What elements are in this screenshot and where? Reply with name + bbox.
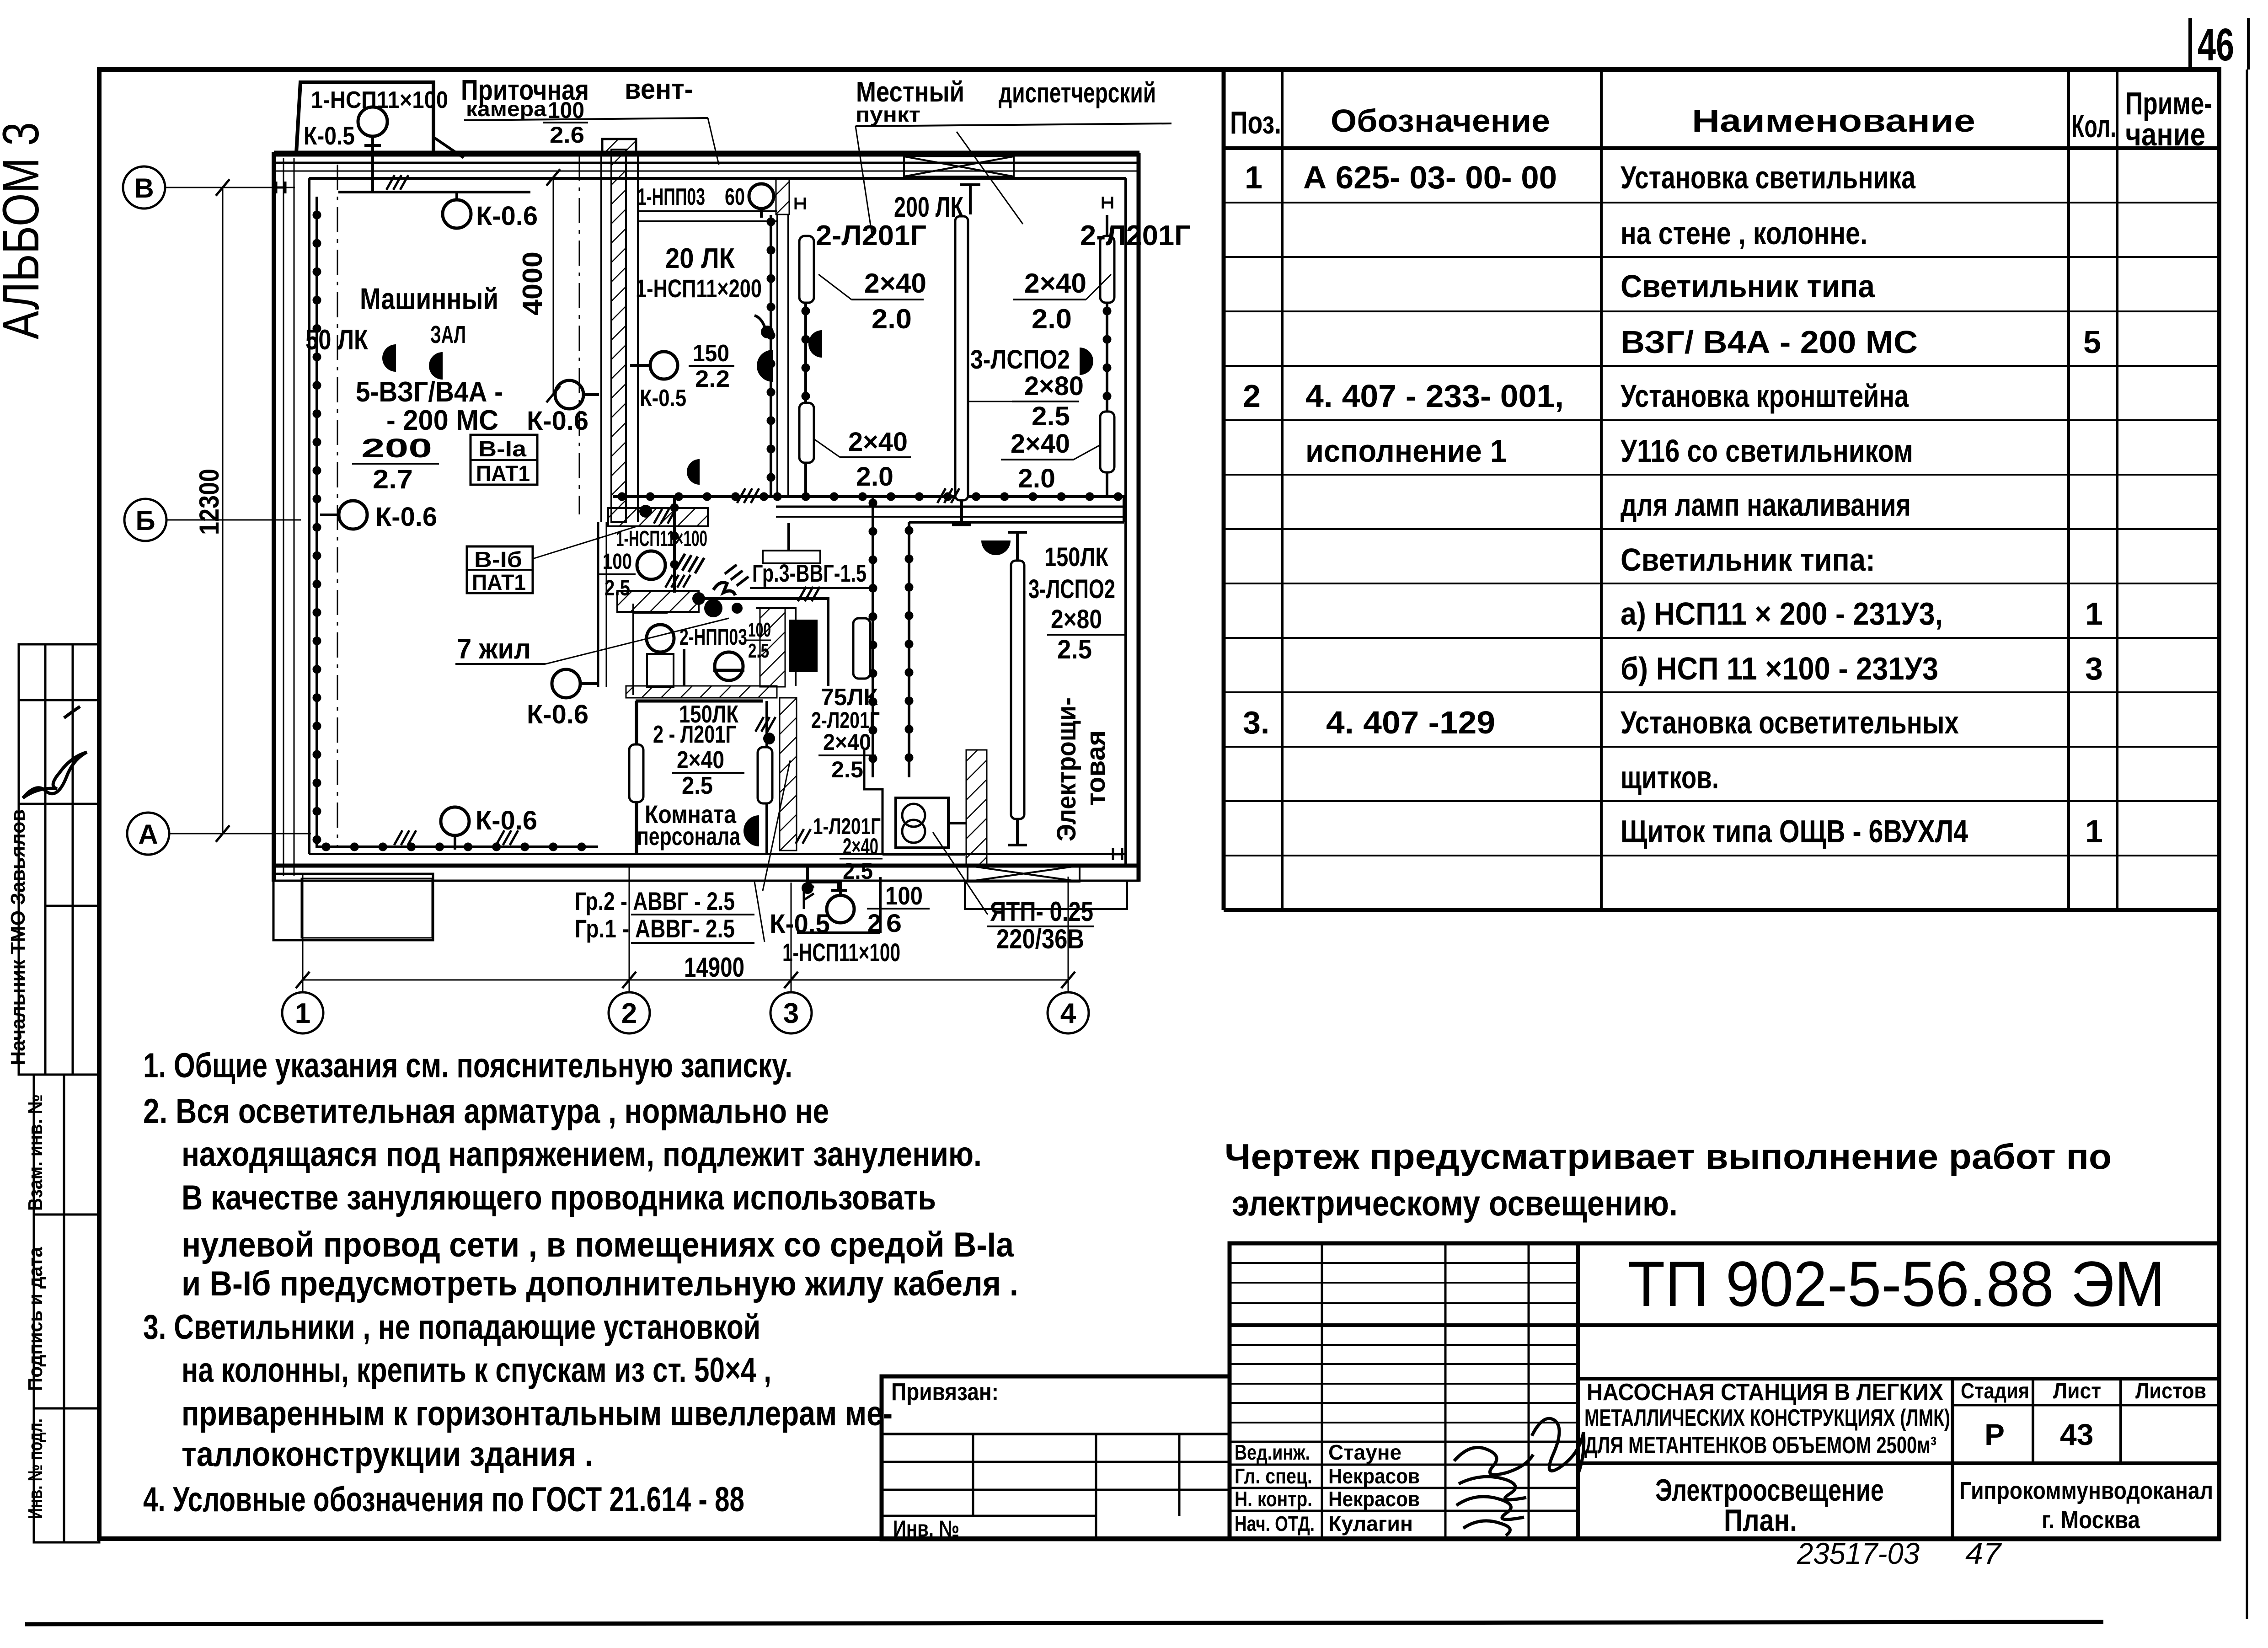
svg-text:Стауне: Стауне [1328, 1440, 1401, 1464]
hatched strip electro room left [966, 750, 987, 864]
wire left tubes column [804, 236, 807, 497]
svg-text:Установка осветительных: Установка осветительных [1621, 705, 1959, 740]
wall left outer [272, 152, 276, 882]
svg-text:2. Вся осветительная: 2. Вся осветительная арматура , нормальн… [143, 1092, 829, 1131]
axis leader lines [165, 187, 311, 834]
svg-text:К-0.6: К-0.6 [476, 201, 538, 231]
wire electro transformer loop [883, 823, 966, 854]
svg-text:150: 150 [693, 340, 729, 367]
wire bottom lamp drop [797, 866, 880, 933]
vent corridor room bottom wall [638, 210, 777, 212]
svg-text:2.0: 2.0 [872, 304, 912, 334]
wall right [1124, 178, 1127, 867]
svg-text:75ЛК: 75ЛК [821, 684, 878, 711]
wire center horizontal [613, 495, 771, 498]
T ceiling symbols [952, 185, 1027, 845]
wire komnata tube drop [765, 701, 768, 854]
svg-text:2×80: 2×80 [1051, 605, 1102, 634]
svg-text:Листов: Листов [2135, 1379, 2206, 1403]
wall bottom [309, 853, 1126, 855]
lamp with line 2-NPP03 [715, 652, 743, 680]
svg-text:электрическому освещению.: электрическому освещению. [1232, 1183, 1678, 1223]
svg-text:2-Л201Г: 2-Л201Г [816, 220, 926, 251]
wall top outer [274, 151, 1139, 157]
svg-text:К-0.5: К-0.5 [304, 121, 355, 150]
junction dot overlays [317, 215, 1124, 847]
svg-text:2 - Л201Г: 2 - Л201Г [653, 721, 736, 748]
svg-text:Нач. ОТД.: Нач. ОТД. [1235, 1512, 1315, 1536]
fluorescent tube center small [853, 618, 870, 679]
page number 46 box [2190, 18, 2248, 70]
svg-text:У116 со светильником: У116 со светильником [1621, 433, 1913, 469]
lamp K-0.6 hall lower [552, 669, 580, 698]
svg-text:4. 407 -129: 4. 407 -129 [1326, 705, 1495, 740]
svg-text:Стадия: Стадия [1961, 1379, 2029, 1403]
svg-text:1. Общие указания с: 1. Общие указания см. пояснительную запи… [143, 1046, 792, 1085]
svg-text:100: 100 [885, 881, 923, 910]
axis circle 1 [282, 992, 323, 1033]
svg-text:220/36В: 220/36В [996, 924, 1084, 954]
svg-text:ЯТП- 0.25: ЯТП- 0.25 [990, 896, 1093, 927]
wall mount H symbols [276, 182, 1122, 860]
svg-text:Привязан:: Привязан: [891, 1378, 999, 1406]
NOTES [143, 1046, 1018, 1519]
SIDEBAR [19, 644, 99, 1542]
svg-text:Некрасов: Некрасов [1328, 1464, 1420, 1488]
svg-text:таллоконструкции здания .: таллоконструкции здания . [182, 1435, 593, 1474]
svg-text:персонала: персонала [637, 822, 741, 851]
svg-text:1: 1 [2085, 813, 2103, 849]
svg-text:Взам. инв. №: Взам. инв. № [24, 1094, 47, 1211]
svg-text:1-НСП11×100: 1-НСП11×100 [311, 87, 448, 113]
svg-text:Гл. спец.: Гл. спец. [1235, 1464, 1312, 1488]
svg-text:ВЗГ/ В4А - 200 МС: ВЗГ/ В4А - 200 МС [1621, 324, 1918, 360]
svg-text:Инв. №: Инв. № [893, 1516, 959, 1541]
svg-text:План.: План. [1724, 1503, 1797, 1538]
hatched band below dispatcher wall [608, 508, 708, 526]
svg-text:МЕТАЛЛИЧЕСКИХ КОНСТРУКЦИЯХ (: МЕТАЛЛИЧЕСКИХ КОНСТРУКЦИЯХ (ЛМК) [1584, 1405, 1950, 1431]
dimension tick slashes [216, 179, 1075, 988]
wall between rooms [776, 214, 778, 497]
svg-text:Электроосвещение: Электроосвещение [1655, 1473, 1884, 1508]
axis circle В [123, 166, 165, 209]
fluorescent tube electro long [1011, 561, 1024, 819]
svg-text:Светильник типа: Светильник типа [1621, 268, 1875, 304]
svg-text:2.5: 2.5 [843, 858, 873, 884]
fluorescent tube middle long [955, 216, 968, 500]
svg-text:Машинный: Машинный [360, 282, 498, 316]
corridor wall lines beside column [600, 153, 602, 522]
svg-text:4: 4 [1060, 998, 1076, 1029]
project name [1584, 1379, 1950, 1459]
wire dispatcher bottom [771, 497, 1124, 522]
svg-text:В качестве зануляющего: В качестве зануляющего проводника исполь… [182, 1178, 936, 1217]
svg-text:2.7: 2.7 [373, 465, 413, 494]
svg-text:Вед.инж.: Вед.инж. [1235, 1440, 1310, 1464]
svg-text:2×40: 2×40 [843, 834, 878, 859]
wire center drop [673, 497, 676, 593]
svg-text:на стене , колонне.: на стене , колонне. [1621, 215, 1867, 251]
svg-text:Гр.3-ВВГ-1.5: Гр.3-ВВГ-1.5 [752, 560, 867, 587]
svg-text:пункт: пункт [856, 102, 920, 126]
svg-text:Гипрокоммунводоканал: Гипрокоммунводоканал [1959, 1477, 2213, 1504]
svg-text:2: 2 [867, 909, 881, 937]
hatched band komnata top [626, 686, 777, 698]
lamp K-0.6 hall mid [555, 380, 583, 409]
svg-text:для ламп накаливания: для ламп накаливания [1621, 487, 1911, 523]
sidebar lower stamp block [34, 1075, 99, 1542]
svg-text:1-НСП11×200: 1-НСП11×200 [636, 274, 762, 303]
SPECIFICATION TABLE [1224, 70, 2219, 910]
svg-text:23517-03: 23517-03 [1797, 1536, 1920, 1570]
hatched strip komnata right [780, 698, 797, 851]
svg-text:3.: 3. [1243, 705, 1269, 740]
lamp K-0.5 bottom center [827, 895, 854, 923]
svg-text:200 ЛК: 200 ЛК [894, 192, 963, 223]
wire hall left+bottom [317, 197, 598, 847]
svg-text:1: 1 [1245, 160, 1262, 195]
svg-text:ПАТ1: ПАТ1 [472, 571, 526, 595]
axis verticals to circles [303, 866, 1068, 992]
box В-Iб ПАТ1 [467, 546, 533, 593]
window cross bottom wall [968, 866, 1080, 882]
svg-text:- 200 МС: - 200 МС [386, 405, 498, 436]
svg-text:43: 43 [2060, 1418, 2093, 1451]
fluorescent tube komnata right [758, 747, 772, 803]
svg-text:Н. контр.: Н. контр. [1235, 1487, 1312, 1511]
table body texts [1243, 160, 2103, 849]
lamp 2-NPP03 room [647, 625, 674, 652]
signer labels [1235, 1440, 1420, 1536]
svg-text:Лист: Лист [2053, 1379, 2101, 1403]
svg-text:Наименование: Наименование [1692, 103, 1975, 139]
svg-text:Некрасов: Некрасов [1328, 1487, 1420, 1511]
wall top inner lines [274, 162, 1139, 164]
hatched wall piece right of corridor [776, 178, 789, 214]
svg-text:5: 5 [2083, 324, 2101, 360]
svg-text:3-ЛСПО2: 3-ЛСПО2 [1028, 574, 1115, 604]
annex rectangle bottom left [273, 874, 433, 940]
svg-text:2.2: 2.2 [695, 366, 730, 392]
svg-text:НАСОСНАЯ СТАНЦИЯ В ЛЕГКИ: НАСОСНАЯ СТАНЦИЯ В ЛЕГКИХ [1587, 1379, 1943, 1406]
svg-text:2.5: 2.5 [682, 772, 713, 799]
axis circle А [127, 813, 169, 855]
dash-dot axis lines [337, 155, 579, 848]
svg-text:50 ЛК: 50 ЛК [305, 324, 368, 356]
svg-text:на колонны, крепить к с: на колонны, крепить к спускам из ст. 50×… [182, 1351, 771, 1390]
svg-text:2×40: 2×40 [1024, 268, 1086, 299]
svg-text:б) НСП 11 ×100 - 231У3: б) НСП 11 ×100 - 231У3 [1621, 651, 1938, 686]
axis circle 3 [770, 992, 812, 1033]
wire corridor wall [770, 215, 772, 497]
fluorescent tube komnata left [629, 744, 643, 802]
hatched band center left [617, 591, 699, 612]
svg-text:В: В [134, 173, 154, 203]
small room 2-NPP03 walls [633, 604, 796, 695]
svg-text:исполнение 1: исполнение 1 [1305, 433, 1507, 469]
svg-text:А: А [138, 819, 158, 850]
table header texts [1230, 86, 2212, 152]
svg-text:В-Iб: В-Iб [474, 548, 522, 572]
svg-text:3: 3 [2085, 651, 2103, 686]
svg-text:200: 200 [361, 433, 432, 463]
svg-text:диспетчерский: диспетчерский [999, 77, 1156, 109]
svg-text:Гр.2 - АВВГ - 2.5: Гр.2 - АВВГ - 2.5 [575, 887, 735, 915]
svg-text:7 жил: 7 жил [457, 633, 531, 665]
svg-text:Обозначение: Обозначение [1331, 103, 1550, 139]
svg-text:Электрощи-: Электрощи- [1052, 697, 1081, 841]
black semicircle wall lamps [382, 344, 396, 372]
axis circle 2 [609, 992, 650, 1033]
lamp K-0.6 hall bottom [441, 807, 469, 835]
electro room inner wall [864, 750, 883, 854]
lamp K-0.5 protrusion [358, 107, 387, 136]
svg-text:100: 100 [603, 550, 632, 574]
lamp K-0.6 axis B [339, 501, 367, 529]
svg-text:2.5: 2.5 [748, 640, 769, 662]
wall left inner lines [283, 158, 284, 876]
svg-text:вент-: вент- [625, 74, 693, 105]
hatched column wall center top [611, 150, 626, 522]
svg-text:К-0.6: К-0.6 [527, 406, 588, 436]
sidebar upper stamp block [19, 644, 99, 1075]
scan page edge right [2246, 70, 2248, 1619]
washbasin symbols [647, 654, 674, 687]
fluorescent tube right room upper [1100, 236, 1114, 303]
svg-text:150ЛК: 150ЛК [1044, 542, 1108, 572]
svg-text:5-ВЗГ/В4А -: 5-ВЗГ/В4А - [356, 376, 503, 408]
svg-text:2-Л201Г: 2-Л201Г [1080, 220, 1191, 251]
svg-text:1-НПП03: 1-НПП03 [637, 184, 705, 210]
svg-text:2.0: 2.0 [856, 462, 893, 492]
svg-text:Начальник ТМО Завьялов: Начальник ТМО Завьялов [7, 809, 29, 1065]
svg-text:2×80: 2×80 [1024, 371, 1084, 401]
box В-Iа ПАТ1 [471, 435, 537, 485]
svg-text:2×40: 2×40 [1011, 429, 1070, 459]
svg-text:20 ЛК: 20 ЛК [665, 243, 735, 274]
svg-text:К-0.6: К-0.6 [476, 806, 537, 835]
vent room protrusion top left [296, 82, 433, 153]
svg-text:2×40: 2×40 [848, 427, 908, 457]
svg-text:2.0: 2.0 [1032, 304, 1072, 334]
svg-text:г. Москва: г. Москва [2042, 1506, 2140, 1534]
svg-text:К-0.5: К-0.5 [640, 385, 686, 412]
svg-text:2.5: 2.5 [1057, 635, 1092, 664]
svg-text:товая: товая [1081, 730, 1111, 806]
svg-text:Кол.: Кол. [2071, 108, 2116, 144]
svg-text:100: 100 [548, 97, 584, 123]
Чертеж note [1225, 1136, 2112, 1223]
svg-text:4000: 4000 [517, 251, 548, 316]
svg-text:6: 6 [886, 909, 902, 937]
scan page edge bottom [25, 1622, 2103, 1624]
wire right tubes column [1106, 215, 1108, 497]
svg-text:находящаяся под напряж: находящаяся под напряжением, подлежит за… [182, 1135, 982, 1174]
wall below column [597, 522, 599, 687]
label rectangle above Gr3 [763, 551, 820, 563]
svg-text:2×40: 2×40 [864, 268, 926, 299]
cluster scribbles [676, 554, 704, 573]
svg-text:приваренным к горизонтальн: приваренным к горизонтальным швеллерам м… [182, 1394, 893, 1433]
wire crossing slashes [386, 175, 959, 845]
svg-text:46: 46 [2198, 19, 2234, 70]
komnata personala walls [635, 701, 638, 854]
svg-text:Подпись и дата: Подпись и дата [24, 1247, 47, 1391]
svg-text:47: 47 [1965, 1536, 2002, 1570]
window cross top wall [904, 156, 1014, 177]
switch symbol bottom [804, 886, 814, 909]
svg-text:а) НСП11 × 200 - 231У3,: а) НСП11 × 200 - 231У3, [1621, 596, 1943, 631]
signatures scribble [1454, 1447, 1533, 1536]
svg-text:и В-Iб предусмотреть до: и В-Iб предусмотреть дополнительную жилу… [182, 1264, 1018, 1303]
wires with junction dots [317, 137, 1124, 933]
svg-text:ДЛЯ МЕТАНТЕНКОВ ОБЪЕМОМ 250: ДЛЯ МЕТАНТЕНКОВ ОБЪЕМОМ 2500м³ [1584, 1432, 1936, 1459]
svg-text:60: 60 [725, 184, 745, 210]
wire protrusion lamp drop [373, 137, 464, 192]
wire electro room [909, 522, 1124, 777]
fluorescent tube left room lower [799, 403, 814, 463]
wire hall top [338, 191, 530, 193]
svg-text:4. Условные обозначения: 4. Условные обозначения по ГОСТ 21.614 -… [143, 1480, 744, 1519]
svg-text:К-0.6: К-0.6 [375, 502, 437, 532]
big junction blob [704, 599, 722, 617]
svg-text:Щиток типа ОЩВ - 6ВУХЛ4: Щиток типа ОЩВ - 6ВУХЛ4 [1621, 813, 1968, 849]
hatched strip center [760, 608, 785, 687]
lamp K-0.6 hall top [443, 200, 471, 228]
svg-text:4. 407 - 233- 001,: 4. 407 - 233- 001, [1305, 378, 1564, 414]
svg-text:2-НПП03: 2-НПП03 [679, 624, 747, 650]
svg-text:К-0.5: К-0.5 [770, 909, 830, 939]
dispatcher room bottom wall [776, 506, 1126, 508]
svg-text:1-НСП11×100: 1-НСП11×100 [616, 527, 707, 551]
svg-text:2.5: 2.5 [831, 757, 863, 782]
pavement rect below electro [965, 882, 1127, 909]
sidebar signature squiggle [23, 706, 87, 798]
transformer circles [902, 804, 925, 827]
wire center cluster [699, 599, 828, 686]
svg-text:ЗАЛ: ЗАЛ [430, 321, 466, 348]
lamp 1-NSP11 center [637, 551, 665, 579]
svg-text:Приме-: Приме- [2125, 86, 2212, 121]
black panel shield [789, 620, 818, 672]
svg-text:Поз.: Поз. [1230, 105, 1281, 140]
svg-text:Б: Б [135, 505, 155, 536]
svg-text:ПАТ1: ПАТ1 [476, 462, 530, 486]
svg-text:Инв. № подл.: Инв. № подл. [24, 1418, 47, 1519]
svg-text:Установка светильника: Установка светильника [1621, 160, 1916, 195]
svg-text:Светильник типа:: Светильник типа: [1621, 542, 1875, 578]
svg-text:камера: камера [466, 97, 546, 121]
svg-text:2: 2 [1243, 378, 1261, 414]
svg-text:щитков.: щитков. [1621, 760, 1719, 795]
svg-text:чание: чание [2125, 117, 2205, 152]
TITLE BLOCK [1230, 1243, 2219, 1539]
svg-text:ТП 902-5-56.88 ЭМ: ТП 902-5-56.88 ЭМ [1628, 1248, 2165, 1320]
svg-text:2: 2 [621, 998, 637, 1029]
svg-text:1-НСП11×100: 1-НСП11×100 [782, 938, 900, 967]
axis circle 4 [1048, 992, 1089, 1033]
svg-text:1: 1 [295, 998, 310, 1029]
svg-text:2×40: 2×40 [677, 746, 724, 774]
svg-text:2.6: 2.6 [550, 122, 584, 148]
svg-text:Установка кронштейна: Установка кронштейна [1621, 378, 1909, 414]
wire center vertical [872, 497, 874, 777]
lamp corridor NPP03 [749, 184, 774, 209]
svg-text:3-ЛСПО2: 3-ЛСПО2 [970, 345, 1070, 375]
fluorescent tube right room lower [1100, 412, 1114, 472]
svg-text:2.0: 2.0 [1018, 464, 1055, 493]
privyazan block [882, 1376, 1230, 1539]
svg-text:АЛЬБОМ 3: АЛЬБОМ 3 [0, 122, 49, 339]
svg-text:2.5: 2.5 [604, 576, 630, 600]
svg-text:14900: 14900 [684, 952, 744, 983]
svg-text:1: 1 [2085, 596, 2103, 631]
svg-text:В-Iа: В-Iа [478, 437, 526, 461]
svg-text:3: 3 [783, 998, 799, 1029]
transformer box YaTP [896, 798, 948, 848]
lamp stems [320, 136, 840, 895]
svg-text:Чертеж предусматривает: Чертеж предусматривает выполнение работ … [1225, 1136, 2112, 1177]
svg-text:Кулагин: Кулагин [1328, 1512, 1413, 1536]
svg-text:12300: 12300 [194, 469, 225, 535]
axis circle Б [124, 499, 166, 541]
svg-text:2×40: 2×40 [823, 729, 871, 755]
svg-text:100: 100 [748, 619, 771, 641]
svg-text:нулевой провод сети ,: нулевой провод сети , в помещениях со ср… [182, 1225, 1014, 1264]
svg-text:3. Светильники , не попад: 3. Светильники , не попадающие установко… [143, 1308, 760, 1347]
svg-text:Р: Р [1984, 1418, 2005, 1451]
svg-text:2.5: 2.5 [1032, 401, 1070, 431]
svg-text:Гр.1 - АВВГ- 2.5: Гр.1 - АВВГ- 2.5 [575, 914, 735, 943]
column head above wall [602, 139, 636, 153]
lamp K-0.5 room 20LK [650, 352, 678, 379]
svg-text:А 625- 03- 00- 00: А 625- 03- 00- 00 [1303, 160, 1557, 195]
fluorescent tube left room upper [799, 236, 814, 303]
svg-text:К-0.6: К-0.6 [527, 700, 588, 729]
dimension line 4000 [553, 177, 554, 394]
